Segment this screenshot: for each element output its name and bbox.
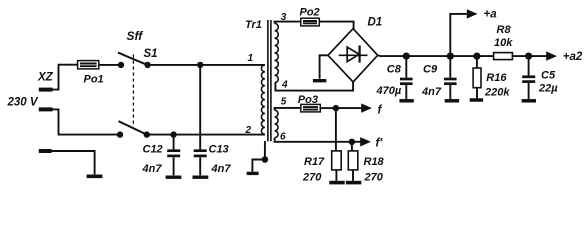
wire R8 to node C5	[512, 55, 528, 57]
node C13 tap	[197, 62, 203, 68]
ground C13	[193, 175, 209, 178]
arrow f'	[352, 141, 361, 143]
svg-text:+a: +a	[484, 8, 498, 20]
svg-text:470µ: 470µ	[376, 85, 402, 97]
node f	[333, 105, 339, 111]
ground C12	[166, 175, 182, 178]
wire N terminal to switch	[52, 109, 120, 134]
svg-text:Po2: Po2	[300, 6, 320, 18]
node f'	[349, 139, 355, 145]
resistor R18	[351, 142, 353, 151]
transformer Tr1 primary winding	[261, 65, 264, 134]
capacitor C13	[199, 65, 201, 149]
svg-text:4n7: 4n7	[421, 86, 442, 98]
svg-text:2: 2	[245, 125, 252, 136]
terminal PE	[39, 149, 52, 153]
node shield	[262, 156, 269, 163]
resistor R16	[476, 56, 478, 68]
wire +a branch	[450, 14, 467, 56]
wire switch to pin2	[147, 134, 265, 136]
wire L terminal to fuse	[52, 65, 77, 90]
svg-text:6: 6	[280, 131, 286, 142]
transformer secondary II (pins 5-6)	[275, 110, 278, 138]
svg-text:4: 4	[281, 79, 288, 90]
node C5	[525, 53, 532, 60]
svg-text:Sff: Sff	[127, 29, 144, 43]
svg-text:f: f	[378, 104, 383, 116]
wire Po3 to node f	[320, 107, 336, 109]
wire bridge plus rail	[378, 54, 494, 57]
svg-text:Po1: Po1	[84, 73, 104, 85]
terminal N	[39, 107, 53, 111]
svg-text:C8: C8	[387, 64, 402, 76]
svg-text:10k: 10k	[494, 37, 513, 49]
node C8	[403, 53, 410, 60]
svg-text:Po3: Po3	[298, 94, 318, 106]
switch link dashed	[132, 55, 134, 127]
wire PE to ground	[51, 151, 94, 174]
transformer shield lead	[264, 141, 266, 159]
svg-text:f′: f′	[376, 137, 384, 149]
node R16	[473, 53, 480, 60]
ground shield	[247, 172, 259, 175]
arrow +a	[467, 9, 478, 18]
ground R16	[470, 98, 483, 102]
capacitor C8	[405, 56, 407, 78]
wire pin5 to fuse Po3	[275, 108, 301, 110]
svg-text:4n7: 4n7	[211, 163, 232, 175]
node C9 / +a	[447, 53, 454, 60]
svg-text:C13: C13	[209, 143, 229, 155]
svg-text:22µ: 22µ	[538, 82, 558, 94]
fuse Po1	[78, 61, 99, 69]
svg-text:Tr1: Tr1	[245, 19, 262, 31]
svg-text:C5: C5	[541, 69, 556, 81]
svg-text:C12: C12	[143, 143, 163, 155]
svg-text:R16: R16	[486, 72, 507, 84]
switch S1 upper blade	[118, 53, 148, 66]
wire shield to ground	[252, 160, 265, 172]
svg-text:R18: R18	[364, 156, 385, 168]
wire pin4 to bridge bottom	[275, 82, 353, 91]
svg-text:R17: R17	[304, 156, 325, 168]
node switch lower right	[144, 131, 150, 137]
ground C5	[522, 99, 536, 103]
transformer secondary I (pins 3-4)	[275, 23, 279, 82]
terminal XZ pin L	[39, 88, 53, 92]
node switch upper right	[144, 62, 150, 68]
svg-text:R8: R8	[497, 24, 512, 36]
wire switch to pin1	[148, 64, 265, 66]
wire pin3 to fuse Po2	[275, 22, 301, 24]
svg-text:270: 270	[364, 171, 384, 183]
capacitor C5	[528, 56, 530, 75]
fuse Po2	[301, 18, 320, 26]
bridge rectifier D1	[328, 29, 378, 82]
ground R17	[329, 181, 344, 185]
svg-text:+a2: +a2	[563, 51, 583, 63]
arrow f	[336, 107, 362, 109]
resistor R8	[494, 53, 513, 60]
ground C8	[399, 99, 413, 103]
ground C9	[445, 99, 459, 103]
wire Po2 to bridge top	[319, 22, 353, 29]
svg-text:XZ: XZ	[37, 71, 54, 83]
arrow +a2	[529, 55, 547, 57]
svg-text:5: 5	[281, 97, 287, 108]
ground R18	[346, 181, 361, 185]
transformer core	[268, 20, 271, 141]
capacitor C12	[173, 135, 175, 150]
wire bridge minus to ground	[320, 55, 328, 79]
ground bridge	[313, 79, 326, 82]
ground PE	[87, 175, 103, 179]
svg-text:C9: C9	[423, 64, 438, 76]
svg-text:4n7: 4n7	[142, 163, 163, 175]
node C12 tap	[170, 131, 176, 137]
svg-text:230 V: 230 V	[7, 97, 39, 109]
capacitor C9	[449, 56, 451, 78]
node switch upper left	[118, 62, 124, 68]
wire pin6 to node f'	[275, 138, 352, 142]
node switch lower left	[117, 131, 123, 137]
svg-text:270: 270	[302, 171, 322, 183]
fuse Po3	[301, 104, 321, 112]
svg-text:220k: 220k	[484, 86, 510, 98]
svg-text:S1: S1	[144, 48, 158, 60]
svg-text:D1: D1	[368, 17, 383, 29]
wire fuse to switch	[99, 64, 121, 66]
switch S1 lower blade	[119, 121, 147, 134]
svg-text:1: 1	[248, 53, 254, 64]
resistor R17	[335, 108, 337, 151]
